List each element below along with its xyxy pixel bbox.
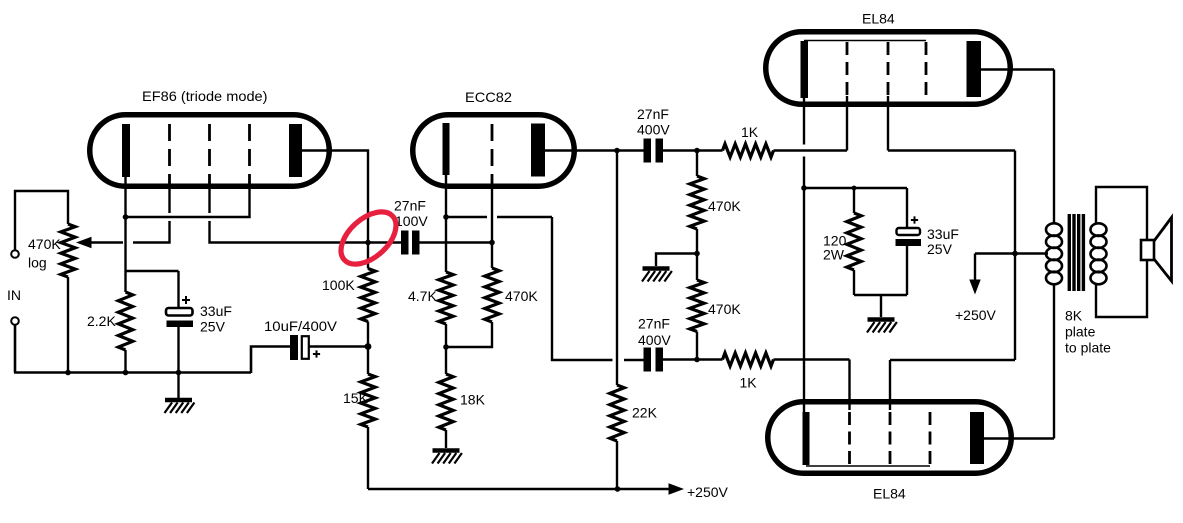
svg-text:log: log <box>28 255 47 271</box>
ECC82 grid (dashed) <box>491 124 494 189</box>
wire cathode branch to 33uF <box>126 271 179 308</box>
pentode EL84 (bottom) envelope <box>768 402 1012 474</box>
junction ECC82 cathode node <box>443 214 449 220</box>
EF86 grid g1 (dashed) <box>168 124 171 189</box>
capacitor 27nF 400V (lower coupling) <box>644 348 664 372</box>
svg-text:ECC82: ECC82 <box>465 89 512 105</box>
svg-text:1K: 1K <box>740 375 758 391</box>
EL84 top anode <box>967 41 982 97</box>
wire cathode bias bottom rail <box>854 294 907 296</box>
svg-text:25V: 25V <box>927 241 953 257</box>
wire +250V rail <box>368 488 677 490</box>
resistor 4.7K <box>439 272 453 324</box>
junction ECC82 grid node <box>489 240 495 246</box>
resistor 2.2K <box>118 292 132 350</box>
wire EL84 bottom anode to transformer <box>984 284 1054 439</box>
ground (EL84 cathode) <box>868 317 895 322</box>
wire anode node down to 22K <box>616 151 618 386</box>
wire 4.7K to bias node <box>445 324 447 347</box>
wire ground stub <box>177 373 179 398</box>
wire 15K to +250V rail <box>367 427 369 489</box>
label 27nF 100V <box>394 198 428 230</box>
resistor 15K <box>361 374 375 427</box>
wire EF86 g2 to grid node A <box>210 189 369 243</box>
resistor 1K (lower grid stopper) <box>723 353 774 366</box>
wire 100K to decoupling node <box>367 322 369 347</box>
svg-text:EL84: EL84 <box>862 11 895 27</box>
wire EF86 cathode down <box>124 177 126 292</box>
wire 2.2K bottom to ground rail <box>124 350 126 373</box>
capacitor 27nF 400V (upper coupling) <box>644 139 664 163</box>
svg-text:25V: 25V <box>200 319 226 335</box>
wire upper cap to 1K <box>663 149 723 151</box>
resistor 100K <box>361 269 375 322</box>
wire EL84 bottom g2 to screen bus <box>890 360 1015 410</box>
EF86 grid g3 (dashed) <box>248 124 251 189</box>
ECC82 cathode <box>443 123 450 175</box>
wire 10uF to decoupling node <box>309 345 368 347</box>
svg-text:IN: IN <box>7 287 21 303</box>
arrow +250V rail <box>669 483 685 495</box>
svg-text:10uF/400V: 10uF/400V <box>264 318 338 334</box>
resistor 470K (ECC82 grid leak) <box>485 268 499 322</box>
junction bias node <box>443 344 449 350</box>
EL84 top g3-cathode internal tie <box>804 40 926 42</box>
EF86 anode <box>289 124 302 177</box>
wire decoupling node to 15K <box>367 347 369 375</box>
EL84 top grid g3 (dashed) <box>925 42 928 96</box>
svg-text:+250V: +250V <box>687 484 729 500</box>
wire lower 1K to EL84 grid <box>774 360 850 411</box>
red highlight ellipse on node A <box>331 202 405 274</box>
wire node A to 27nF 100V <box>368 241 401 243</box>
wire lower cap to 1K <box>663 358 723 360</box>
wire 470K to mid node <box>696 229 698 280</box>
wire ECC82 grid down to 470K <box>491 189 493 268</box>
wire node A to 100K <box>367 243 369 269</box>
svg-text:400V: 400V <box>638 332 671 348</box>
wire 33uF bottom to ground rail <box>177 327 179 373</box>
triode ECC82 envelope <box>413 115 575 187</box>
wire ECC82 cathode down <box>445 175 447 217</box>
resistor 18K <box>439 374 453 430</box>
junction mid bias node <box>694 251 700 257</box>
svg-text:2.2K: 2.2K <box>87 313 116 329</box>
ground (bias divider) <box>643 266 670 271</box>
wire upper grid node down to 470K <box>696 151 698 177</box>
label 8K plate to plate <box>1065 308 1111 356</box>
node IN upper input terminal <box>11 250 19 258</box>
svg-text:470K: 470K <box>505 288 538 304</box>
transformer secondary winding <box>1091 223 1107 284</box>
capacitor 10uF/400V (supply decoupling) <box>290 335 320 360</box>
svg-text:470K: 470K <box>28 236 61 252</box>
transformer primary winding <box>1046 223 1062 284</box>
wire mid node to ground <box>656 254 697 267</box>
wire EL84 top cathode down <box>803 98 805 188</box>
wire transformer centre tap <box>1015 252 1048 254</box>
junction 120R top <box>852 186 857 191</box>
junction screens bus / +250V feed <box>1012 251 1018 257</box>
wire 120R top stub <box>853 188 855 213</box>
wire cathode node to 4.7K <box>445 217 447 272</box>
wire lower input terminal to ground rail <box>14 325 17 373</box>
EL84 top grid g2 (dashed) <box>887 42 890 96</box>
transformer core <box>1069 214 1083 291</box>
wire ECC82 cathode to lower coupling cap <box>446 217 644 360</box>
wire +250V feed branch <box>975 254 1015 282</box>
resistor 22K <box>610 385 624 441</box>
junction lower grid node <box>694 357 700 363</box>
wire ground rail up to 10uF <box>251 347 290 374</box>
label 120 2W <box>823 233 847 263</box>
resistor 1K (upper grid stopper) <box>723 144 774 157</box>
wire potentiometer bottom to ground rail <box>67 277 69 373</box>
resistor 470K (upper bias feed) <box>690 176 704 229</box>
svg-text:27nF: 27nF <box>637 106 669 122</box>
arrow +250V feed <box>969 280 980 295</box>
label 33uF 25V <box>200 303 232 335</box>
svg-text:+250V: +250V <box>955 307 997 323</box>
node IN lower input terminal <box>11 317 19 325</box>
svg-text:15K: 15K <box>343 390 369 406</box>
junction cathode bias node <box>801 185 807 191</box>
EF86 cathode <box>122 124 130 177</box>
svg-text:8K: 8K <box>1065 308 1083 324</box>
junction potentiometer/ground rail <box>65 370 71 376</box>
wire 120R bottom stub <box>853 270 855 295</box>
wire EF86 anode to node A <box>302 151 368 243</box>
wire EL84 top anode to transformer <box>981 70 1054 225</box>
pentode EF86 envelope <box>90 115 330 187</box>
junction upper grid node <box>694 148 700 154</box>
pentode EL84 (top) envelope <box>766 32 1011 105</box>
wire shared cathode down to bottom EL84 <box>803 188 805 412</box>
wire 27nF 100V to ECC82 grid <box>420 241 493 243</box>
wire cathode bias top rail <box>804 187 907 189</box>
speaker <box>1141 218 1172 282</box>
EL84 bottom anode <box>970 412 984 464</box>
wire screens bus <box>1014 151 1016 361</box>
svg-text:470K: 470K <box>708 301 741 317</box>
wire bias node to 18K <box>445 347 447 374</box>
junction node A (anode/g2/coupling) <box>365 240 371 246</box>
wire secondary bottom to speaker <box>1096 260 1147 317</box>
svg-text:100K: 100K <box>322 277 355 293</box>
wire anode node to upper 27nF <box>617 149 644 151</box>
ground (ECC82 bias) <box>433 448 460 453</box>
junction 22K/+250V rail <box>615 486 621 492</box>
svg-text:EL84: EL84 <box>873 486 906 502</box>
wire 22K to +250V rail <box>616 441 618 489</box>
capacitor 33uF 25V (EL84 cathode bypass) <box>896 216 922 246</box>
EL84 top cathode <box>801 41 809 98</box>
wire 33uF stubs <box>906 188 908 295</box>
junction g3-cathode tie <box>123 214 129 220</box>
wire upper input terminal to potentiometer top <box>15 191 68 250</box>
wire EL84 top g2 to screen bus <box>888 96 1015 151</box>
svg-text:1K: 1K <box>741 124 759 140</box>
svg-text:33uF: 33uF <box>200 303 232 319</box>
junction 2.2K/ground rail <box>123 370 129 376</box>
wire 18K to ground <box>445 430 447 448</box>
svg-text:to plate: to plate <box>1065 340 1111 356</box>
potentiometer 470K log <box>61 224 75 277</box>
EL84 bottom grid g1 (dashed) <box>848 412 851 465</box>
svg-text:470K: 470K <box>708 198 741 214</box>
svg-text:27nF: 27nF <box>638 316 670 332</box>
label 470K log <box>28 236 61 271</box>
resistor 120 2W (cathode bias) <box>847 213 861 270</box>
EF86 grid g2 (dashed) <box>208 124 211 189</box>
svg-text:400V: 400V <box>637 122 670 138</box>
junction decoupling node <box>365 343 372 350</box>
svg-text:100V: 100V <box>395 213 428 229</box>
ECC82 anode <box>531 124 545 177</box>
EL84 bottom cathode <box>803 412 810 465</box>
svg-text:27nF: 27nF <box>394 198 426 214</box>
ground (input stage) <box>165 398 192 403</box>
resistor 470K (lower bias feed) <box>690 280 704 332</box>
svg-text:plate: plate <box>1065 324 1096 340</box>
wire ground rail (input common) <box>14 371 251 374</box>
junction ECC82 anode node <box>614 148 620 154</box>
wire EF86 g1 to wiper arrow <box>133 189 170 243</box>
svg-text:EF86 (triode mode): EF86 (triode mode) <box>142 88 268 104</box>
EL84 top grid g1 (dashed) <box>846 42 849 96</box>
label EL84 33uF 25V <box>927 226 959 257</box>
EL84 bottom grid g2 (dashed) <box>889 412 892 465</box>
label lower 27nF 400V <box>638 316 671 349</box>
svg-text:33uF: 33uF <box>927 226 959 242</box>
junction 33uF/ground rail <box>176 370 182 376</box>
wire 470K bottom to cathode-bias node <box>446 322 492 347</box>
wire EF86 g3 tied to cathode <box>126 189 250 217</box>
svg-text:18K: 18K <box>460 392 486 408</box>
wire EL84 top g1 stub <box>846 96 848 107</box>
wire ECC82 anode out <box>545 149 617 151</box>
capacitor 33uF 25V (cathode bypass) <box>166 296 193 327</box>
svg-text:22K: 22K <box>632 405 658 421</box>
svg-text:4.7K: 4.7K <box>408 288 437 304</box>
capacitor 27nF 100V <box>401 231 420 255</box>
EL84 bottom g3-cathode internal tie <box>806 465 930 467</box>
wire secondary top to speaker <box>1096 187 1147 240</box>
label upper 27nF 400V <box>637 106 670 138</box>
wire cathode ground stub <box>880 295 882 317</box>
svg-text:2W: 2W <box>823 247 845 263</box>
potentiometer wiper arrow <box>76 237 123 248</box>
wire upper 1K to EL84 grid <box>774 107 848 151</box>
wire lower 470K to lower grid node <box>696 332 698 360</box>
EL84 bottom grid g3 (dashed) <box>929 412 932 465</box>
